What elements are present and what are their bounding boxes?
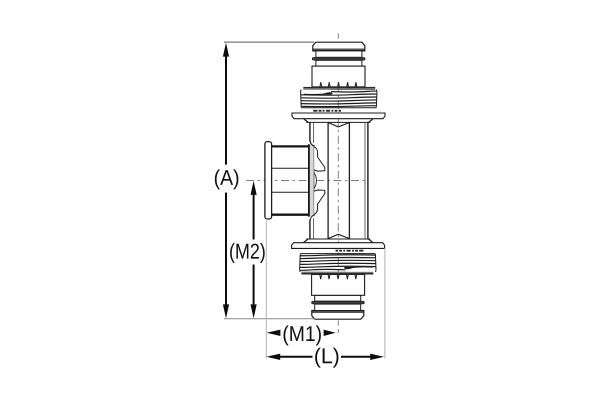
branch bore lower line <box>272 191 309 193</box>
bottom spigot assembly (rotated copy) <box>292 239 385 319</box>
saddle strip right edge <box>313 145 315 217</box>
right flange extension line <box>384 248 386 359</box>
inlet cone silhouette bottom <box>314 190 325 214</box>
dimension (L) arrowheads <box>266 354 384 360</box>
top chevron parting mark <box>328 123 349 127</box>
horizontal centerline of branch <box>246 180 369 182</box>
dimension (M2) arrowheads <box>251 181 257 319</box>
inlet cone silhouette top <box>314 147 325 171</box>
top spigot assembly <box>292 42 385 122</box>
label (M1) <box>284 325 321 345</box>
branch tube top edge <box>272 145 309 147</box>
branch bore upper line <box>272 167 309 169</box>
dimension (A) line <box>225 56 227 306</box>
branch-end extension line <box>265 221 267 359</box>
centerline stub above M1 arrow <box>337 320 339 333</box>
branch end disc <box>265 142 272 219</box>
saddle fillet bottom <box>310 215 315 222</box>
top extension line <box>224 41 314 43</box>
saddle shading strip <box>309 145 314 217</box>
bottom chevron parting mark <box>328 234 349 238</box>
body inner-left facet line <box>313 122 315 143</box>
saddle fillet top <box>310 140 315 146</box>
body inner-right facet line <box>364 122 366 238</box>
saddle strip left edge <box>308 144 310 217</box>
branch tube bottom edge <box>272 214 309 216</box>
dimension (M1) arrows <box>267 330 336 336</box>
dimension (L) line <box>279 356 372 358</box>
label (A) <box>215 169 239 189</box>
vertical centerline <box>337 33 339 319</box>
label (L) <box>315 348 338 368</box>
body outer right edge <box>367 122 369 238</box>
body facet line B <box>348 122 350 238</box>
bottom extension line <box>224 318 315 320</box>
dimension (M2) line <box>253 194 255 306</box>
bore bulge arc <box>314 173 316 189</box>
dimension (A) arrowheads <box>223 43 229 319</box>
body facet line A <box>327 122 329 238</box>
label (M2) <box>230 243 265 263</box>
body outer left edge <box>310 122 368 238</box>
